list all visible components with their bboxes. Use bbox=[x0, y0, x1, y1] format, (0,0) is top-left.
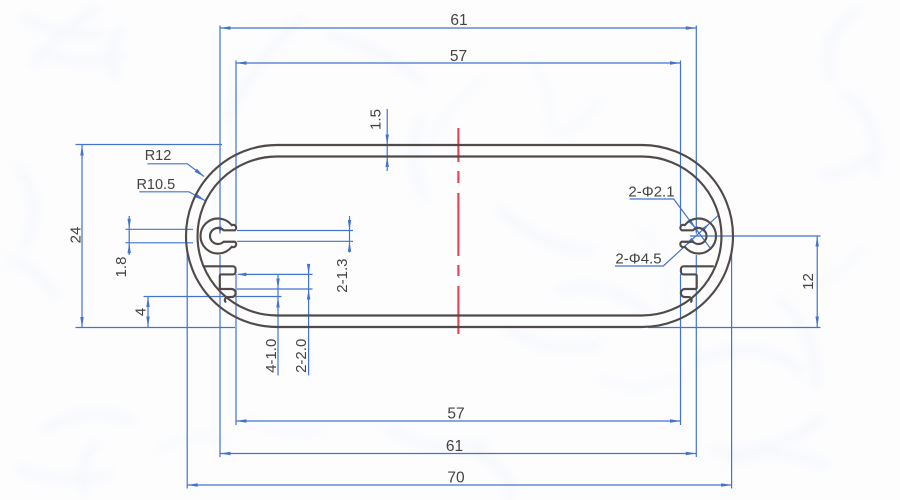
svg-text:2-1.3: 2-1.3 bbox=[334, 258, 351, 292]
svg-text:57: 57 bbox=[450, 48, 467, 65]
small left arrow on ledge line bbox=[237, 273, 246, 277]
dim 2-1.3 outside arrows bbox=[348, 220, 351, 231]
ext 12 bottom right bbox=[648, 327, 821, 329]
leader 2-phi2.1 bbox=[630, 199, 711, 249]
dim 57 bottom arrows bbox=[236, 419, 247, 422]
dim 4-1.0 outside arrows bbox=[276, 279, 279, 290]
dim 12 vertical bbox=[816, 236, 818, 327]
inner stadium bbox=[198, 157, 722, 316]
dim 2-2.0 vertical bbox=[308, 267, 310, 376]
svg-text:R10.5: R10.5 bbox=[136, 177, 175, 193]
tiny arrows at boss center line ends bbox=[218, 227, 221, 235]
leader 2-phi4.5 bbox=[615, 215, 719, 266]
svg-text:1.8: 1.8 bbox=[113, 257, 130, 278]
ext 12 top (boss center line) bbox=[690, 235, 821, 237]
svg-text:24: 24 bbox=[68, 227, 85, 244]
svg-text:2-Φ4.5: 2-Φ4.5 bbox=[615, 251, 661, 268]
dim 2-1.3 vertical bbox=[349, 216, 351, 253]
R10.5 leader arrow bbox=[195, 194, 206, 201]
ext 24/4 bottom left bbox=[76, 327, 236, 329]
right screw boss bbox=[680, 219, 716, 254]
svg-text:61: 61 bbox=[446, 438, 463, 455]
svg-text:12: 12 bbox=[800, 273, 817, 290]
svg-text:4-1.0: 4-1.0 bbox=[263, 339, 280, 373]
dim 4-1.0 vertical bbox=[277, 274, 279, 375]
extension line x=236 bbox=[235, 61, 237, 226]
ext 2-1.3 lines from boss jaws bbox=[237, 230, 353, 232]
ext ledge bottom line bbox=[238, 273, 313, 275]
extension line x=731.6 (70 right) bbox=[731, 250, 733, 489]
centerline dash 5 bbox=[457, 286, 459, 334]
ext 1.8 lines bbox=[126, 228, 194, 230]
dim 57 top line bbox=[236, 62, 681, 64]
centerline dash 2 bbox=[457, 171, 459, 183]
centerline dash 4 bbox=[457, 265, 459, 276]
extension line x=680.5 bbox=[680, 61, 682, 226]
arrowheads (blue) bbox=[80, 26, 819, 486]
dim 4 outside arrows bbox=[146, 297, 149, 308]
right screw boss + notch (mirror) bbox=[680, 219, 716, 302]
dim 2-2.0 outside arrows bbox=[307, 264, 310, 275]
dim 4 vertical bbox=[147, 297, 149, 328]
dim 1.5 vertical bbox=[386, 109, 388, 171]
svg-text:R12: R12 bbox=[145, 148, 172, 164]
ext 24 top bbox=[76, 144, 223, 146]
svg-text:70: 70 bbox=[447, 470, 465, 487]
svg-text:61: 61 bbox=[450, 12, 467, 29]
leader R10.5 bbox=[139, 192, 205, 201]
svg-text:1.5: 1.5 bbox=[368, 109, 385, 130]
centerline dash 1 bbox=[457, 128, 459, 162]
svg-text:4: 4 bbox=[133, 308, 150, 316]
red centerline bbox=[457, 128, 459, 334]
extension line left boss center x=220 bbox=[219, 26, 221, 234]
svg-text:2-Φ2.1: 2-Φ2.1 bbox=[628, 184, 674, 201]
ext rail top line bbox=[237, 288, 313, 290]
centerline dash 3 bbox=[457, 193, 459, 256]
extension line x=187.2 (70 left) bbox=[186, 253, 188, 489]
extension line right boss center x=696.3 bbox=[695, 26, 697, 234]
outer stadium bbox=[186, 145, 733, 327]
dim 61 top arrows bbox=[220, 26, 231, 29]
dim 70 bottom line bbox=[187, 484, 731, 486]
dim 12 arrows bbox=[816, 236, 819, 247]
dim 1.8 outside arrows bbox=[128, 219, 131, 230]
svg-text:57: 57 bbox=[447, 406, 464, 423]
right pcb notch bbox=[681, 266, 713, 302]
dim 24 arrows bbox=[80, 145, 83, 156]
dim 57 top arrows bbox=[236, 61, 247, 64]
dim 1.8 vertical bbox=[128, 216, 130, 255]
R12 leader arrow bbox=[195, 169, 205, 177]
dim 1.5 outside arrows bbox=[386, 135, 389, 146]
phi4.5 arrows on outer circle bbox=[685, 238, 694, 247]
dim 70 bottom arrows bbox=[187, 483, 198, 486]
dim 61 bottom arrows bbox=[220, 452, 231, 455]
dim 57 bottom line bbox=[236, 420, 681, 422]
svg-text:2-2.0: 2-2.0 bbox=[293, 339, 310, 373]
leader R12 bbox=[147, 164, 204, 177]
left screw boss bbox=[200, 219, 236, 254]
dim 61 top line bbox=[220, 27, 696, 29]
dim 61 bottom line bbox=[220, 453, 696, 455]
dim 24 vertical line bbox=[81, 145, 83, 328]
ext 4 / 4-1.0 rail bottom line bbox=[144, 296, 282, 298]
phi2.1 leader arrow bbox=[688, 219, 696, 229]
left pcb notch bbox=[204, 266, 236, 302]
